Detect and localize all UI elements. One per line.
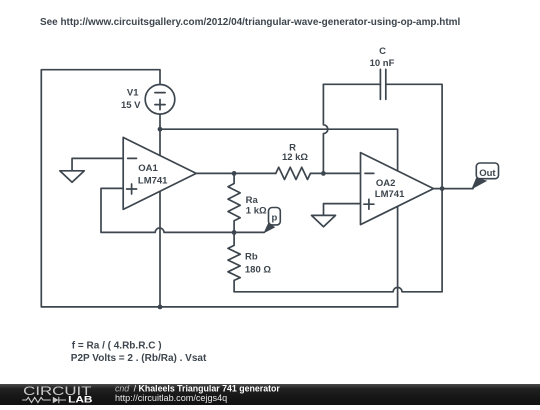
wire big loop: V1 top, left rail, bottom rail, right riser, top return <box>41 70 397 307</box>
footer bar <box>0 384 540 405</box>
wire node p stub <box>234 231 264 233</box>
op-amp U1 triangle OA1 <box>123 137 196 209</box>
svg-text:1 kΩ: 1 kΩ <box>246 206 267 217</box>
V1 plus mark <box>155 100 165 110</box>
wire R to OA2 inverting input <box>310 172 360 174</box>
svg-text:180 Ω: 180 Ω <box>245 265 271 276</box>
junction dot R / C node <box>321 171 326 176</box>
svg-text:http://circuitlab.com/cejgs4q: http://circuitlab.com/cejgs4q <box>115 393 227 403</box>
OA2 plus mark <box>364 199 374 209</box>
OA1 minus mark <box>128 157 137 159</box>
OA2 minus mark <box>365 172 374 174</box>
wire Rb bottom rail to right, hop over riser <box>234 287 442 291</box>
wire OA1 non-inverting input, with hop over V1 vertical <box>101 188 234 232</box>
junction dot bottom rail / V1 <box>158 305 163 310</box>
svg-text:OA1: OA1 <box>138 163 158 174</box>
wire capacitor left horizontal <box>323 83 380 85</box>
junction dot OA1 out / Ra <box>232 171 237 176</box>
svg-text:10 nF: 10 nF <box>370 58 395 69</box>
svg-text:V1: V1 <box>127 87 139 98</box>
voltage source V1 circle <box>145 85 175 115</box>
svg-text:OA2: OA2 <box>376 178 396 189</box>
wire V1 bottom vertical down to bottom rail <box>159 114 161 307</box>
capacitor C plates <box>380 69 385 99</box>
svg-text:Rb: Rb <box>245 251 258 262</box>
flag p box <box>269 208 281 225</box>
logo diode <box>53 397 59 403</box>
OA1 plus mark <box>127 184 137 194</box>
wire OA2 non-inverting input to ground stem <box>324 204 361 216</box>
V1 minus mark <box>155 92 165 94</box>
junction dot V1 plus node <box>158 127 163 132</box>
resistor Ra 1k (vertical zigzag) <box>228 173 240 232</box>
svg-text:15 V: 15 V <box>121 100 141 111</box>
wire capacitor left leg down to R/OA2 node, hop over top return wire <box>323 84 327 173</box>
junction dot OA2 out <box>440 186 445 191</box>
ground (OA1 - input) <box>60 171 85 182</box>
ground (OA2 + input) <box>312 215 336 226</box>
svg-text:LM741: LM741 <box>375 189 405 200</box>
wire capacitor right to OA2 output riser <box>386 84 442 291</box>
svg-text:LM741: LM741 <box>138 175 168 186</box>
svg-text:12 kΩ: 12 kΩ <box>282 152 308 163</box>
flag Out box <box>476 163 498 179</box>
op-amp U2 triangle OA2 <box>361 153 434 225</box>
wire OA1 output to R <box>196 172 276 174</box>
wire OA1 inverting input to ground stem <box>72 158 123 170</box>
flag Out tail <box>471 178 487 190</box>
svg-text:Out: Out <box>479 168 496 179</box>
junction dot Ra / Rb / p <box>232 230 237 235</box>
svg-text:Ra: Ra <box>246 195 259 206</box>
svg-text:C: C <box>379 46 386 57</box>
resistor Rb 180 (vertical zigzag) <box>228 232 240 291</box>
logo resistor zigzag <box>22 397 51 402</box>
svg-text:P2P Volts = 2 . (Rb/Ra) . Vsat: P2P Volts = 2 . (Rb/Ra) . Vsat <box>71 353 207 364</box>
svg-text:See http://www.circuitsgallery: See http://www.circuitsgallery.com/2012/… <box>40 17 460 28</box>
wire OA2 output to Out flag <box>434 188 474 190</box>
svg-text:LAB: LAB <box>68 394 93 405</box>
resistor R 12k (horizontal zigzag) <box>276 167 311 179</box>
svg-text:p: p <box>271 213 277 224</box>
flag p tail <box>263 223 275 234</box>
svg-text:f = Ra / ( 4.Rb.R.C ): f = Ra / ( 4.Rb.R.C ) <box>72 340 162 351</box>
